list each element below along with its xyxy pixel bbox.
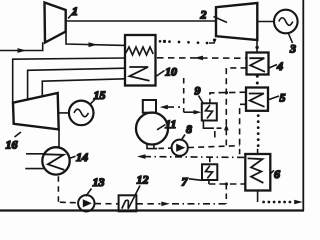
coil inside heater 4	[249, 58, 265, 72]
wire arrow into cooler 9	[184, 110, 202, 114]
svg-text:5: 5	[280, 91, 286, 105]
wire dashed pump8 discharge east to riser	[188, 146, 240, 148]
node dots between heater 4 and heater 5	[256, 75, 259, 85]
reheat coil inside 10	[129, 67, 149, 81]
label 10 leader	[157, 71, 165, 77]
label 6	[274, 167, 280, 181]
svg-text:15: 15	[94, 88, 106, 102]
wire dashed heater5 to cooler9 (y~92.7)	[210, 92, 246, 103]
svg-text:4: 4	[276, 59, 283, 73]
svg-text:11: 11	[165, 117, 176, 131]
svg-text:8: 8	[186, 122, 192, 136]
condenser ejector 12	[119, 195, 137, 211]
heater coil inside 10	[126, 47, 153, 55]
wire turbine16 to generator 15	[59, 112, 69, 114]
label 15	[94, 88, 106, 102]
label 13 leader	[86, 189, 92, 197]
label 4 leader	[269, 65, 277, 69]
svg-text:7: 7	[182, 175, 189, 189]
label 15 leader	[90, 99, 95, 104]
wire cooler7 bottom stub	[208, 180, 210, 184]
wire turbine16 exhaust down to condenser 14	[58, 129, 60, 147]
glyph inside 12	[122, 200, 129, 209]
label 3 leader	[289, 34, 293, 44]
wire dashed condensate bottom line	[95, 202, 226, 207]
frame right border	[302, 0, 304, 211]
label 8 leader	[182, 135, 185, 140]
label 7	[182, 175, 189, 189]
wire dash-dot drain line y~157 with west arrow	[137, 154, 245, 159]
label 12	[137, 173, 149, 187]
node dot crossing at (226.4,92.6)	[225, 91, 228, 94]
wire extraction line L2 to turbine 16	[28, 68, 125, 100]
svg-text:3: 3	[289, 42, 296, 56]
label 9	[195, 84, 201, 98]
label 2 leader	[214, 17, 228, 23]
wire dashed deaerator to pump 8	[159, 147, 172, 149]
heater 4	[247, 53, 269, 75]
label 5 leader	[268, 96, 279, 100]
svg-text:13: 13	[93, 175, 105, 189]
turbine 16 (drive turbine)	[13, 93, 59, 129]
cooler 7	[202, 164, 217, 180]
label 7 leader	[189, 179, 202, 181]
svg-text:14: 14	[76, 150, 88, 164]
condenser 14	[42, 147, 69, 174]
wire dashed heater5 drain west then down to heater6	[240, 104, 246, 154]
label 12 leader	[128, 186, 140, 209]
pump 13	[78, 195, 94, 211]
label 10	[165, 65, 177, 79]
frame bottom border	[0, 209, 304, 211]
label 14 leader	[70, 156, 76, 158]
boiler / steam generator 10	[125, 35, 156, 86]
svg-text:6: 6	[274, 167, 280, 181]
label 1 leader	[68, 10, 76, 19]
wire turbine1 to turbine2 (line A)	[66, 20, 216, 22]
label 8	[186, 122, 192, 136]
label 11	[165, 117, 176, 131]
svg-text:1: 1	[72, 4, 78, 18]
wire short dashed tie	[214, 131, 216, 138]
label 9 leader	[199, 96, 204, 105]
generator 15	[69, 101, 94, 126]
turbine 2 (LP turbine)	[216, 3, 257, 40]
wire cooling water outlet	[25, 168, 44, 170]
coil inside heater 5	[249, 94, 265, 107]
label 5	[280, 91, 286, 105]
wire cooler7 top stub	[209, 157, 211, 164]
svg-text:16: 16	[6, 138, 18, 152]
wire arrow into deaerator head	[160, 105, 180, 110]
label 11 leader	[157, 125, 166, 130]
wire dashed pump13 suction from condenser 14	[58, 175, 78, 203]
cooler 9	[202, 103, 217, 120]
wire dashed steam branch to ejector (vertical x=183.7)	[183, 78, 185, 112]
wire dashed extraction with left arrow (boiler10 to heater4)	[157, 56, 247, 61]
wire heater6 bottom outlet	[257, 191, 259, 203]
label 13	[93, 175, 105, 189]
wire cooling water inlet	[26, 153, 44, 155]
wire turbine1 exhaust to boiler 10 (arrow)	[66, 32, 125, 48]
wire extraction line L3 to turbine 16	[42, 79, 125, 97]
wire dotted heater5 to heater6	[257, 114, 260, 147]
wire stub into heater 6 top	[257, 149, 259, 154]
deaerator head box 11	[143, 100, 156, 113]
wire dotted end hook at turbine 2	[209, 39, 216, 43]
pump 8	[172, 140, 188, 156]
wire extraction line L1 to turbine 16	[13, 58, 125, 103]
wire dotted to right edge (arrow)	[262, 200, 303, 205]
glyph inside 7	[206, 166, 213, 179]
heater 5	[246, 88, 268, 111]
svg-text:9: 9	[195, 84, 201, 98]
label 14	[76, 150, 88, 164]
deaerator tank 11	[136, 113, 168, 145]
wire turbine2 to generator 3	[257, 21, 274, 23]
svg-text:10: 10	[165, 65, 177, 79]
heater 6	[245, 154, 270, 191]
label 2	[200, 8, 207, 22]
label 3	[289, 42, 296, 56]
wire turbine2 down to heater 4	[255, 40, 258, 53]
wire dotted boiler10 to turbine2	[159, 39, 216, 45]
wire dashed riser lower segment	[225, 184, 227, 204]
svg-text:2: 2	[200, 8, 207, 22]
coil inside condenser 14	[45, 154, 65, 170]
wire dashed cooler9 drain to riser	[203, 121, 226, 129]
deaerator outlet neck	[147, 144, 157, 149]
turbine 1 (HP turbine)	[45, 3, 66, 43]
label 6 leader	[270, 170, 274, 174]
glyph inside 9	[206, 105, 213, 119]
wire main steam inlet (left, arrow)	[0, 42, 43, 53]
label 16 leader	[15, 132, 22, 137]
coil inside heater 6	[248, 158, 264, 183]
svg-text:12: 12	[137, 173, 149, 187]
label 4	[276, 59, 283, 73]
label 16	[6, 138, 18, 152]
label 1	[72, 4, 78, 18]
wire dashed drain: heater4 left-bottom to riser	[226, 68, 246, 145]
arrow up on riser	[224, 124, 229, 130]
wire dash-dot drain line y~184	[209, 182, 245, 185]
generator 3	[274, 10, 298, 34]
